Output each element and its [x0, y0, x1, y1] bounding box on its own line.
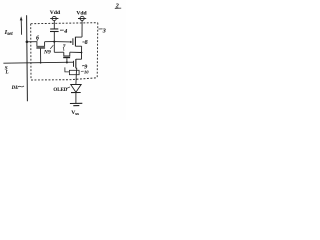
junction T7 drain lead / vertical: [81, 52, 83, 54]
transistor T8 drain lead: [75, 36, 81, 38]
svg-text:7: 7: [63, 44, 66, 50]
svg-text:set: set: [6, 32, 13, 37]
leader DL tilde: [17, 86, 24, 87]
label 8 leader: [82, 41, 84, 43]
svg-text:ss: ss: [75, 111, 79, 116]
svg-text:2: 2: [115, 3, 119, 9]
svg-text:DL: DL: [11, 86, 19, 91]
node N9 wire (node line): [27, 41, 37, 43]
svg-text:3: 3: [102, 28, 106, 34]
label 10 leader: [81, 70, 84, 72]
wire SL scan line rail: [3, 62, 73, 63]
label 7 leader: [63, 48, 65, 51]
dashed box pixel boundary 3: [31, 23, 98, 80]
transistor T7 gate bar: [63, 57, 70, 58]
label 4 leader: [60, 29, 64, 31]
transistor T9 gate bar: [72, 61, 75, 67]
power Vdd right symbol: [80, 16, 84, 20]
wire node to T7 drain: [53, 42, 55, 53]
node A junction dot (DL / node line): [26, 41, 29, 44]
wire pad to OLED anode: [75, 75, 77, 85]
transistor T9 channel: [75, 59, 77, 68]
junction node line / capacitor: [53, 41, 55, 43]
power Vss bar short: [73, 105, 79, 107]
transistor T9 source lead: [75, 68, 78, 70]
gate arrow into T8: [54, 41, 70, 43]
OLED diode triangle: [71, 84, 82, 92]
svg-text:6: 6: [36, 35, 39, 41]
transistor T8 source lead: [75, 45, 81, 47]
svg-text:8: 8: [85, 40, 88, 46]
transistor T6 channel: [37, 42, 45, 47]
OLED cathode bar: [71, 92, 81, 94]
anode contact line: [65, 67, 70, 72]
svg-text:N9: N9: [43, 49, 51, 55]
N9 label leader: [50, 45, 53, 49]
junction SL / T6 gate: [40, 62, 42, 64]
capacitor C4: [53, 32, 55, 42]
label 6 leader: [36, 39, 38, 41]
power Vss bar long: [70, 102, 82, 104]
wire Vdd right to T8 drain: [81, 21, 83, 37]
svg-text:4: 4: [63, 29, 67, 35]
Iset current arrow: [20, 20, 22, 35]
wire DL data line vertical: [26, 15, 29, 101]
figure number underline: [115, 7, 121, 9]
transistor T7 channel: [54, 51, 64, 53]
transistor T7 gate lead: [66, 58, 68, 62]
svg-text:OLED: OLED: [53, 88, 67, 93]
power Vdd left symbol: [52, 16, 56, 20]
wire T8 source to T9 drain: [81, 46, 83, 59]
svg-text:Vdd: Vdd: [50, 10, 61, 16]
svg-text:L: L: [5, 71, 9, 76]
svg-text:Vdd: Vdd: [76, 11, 87, 17]
anode pad 10: [69, 70, 79, 74]
label 9 leader: [82, 65, 84, 67]
label 3 leader: [98, 28, 102, 30]
transistor T6 gate lead: [40, 49, 42, 63]
wire OLED cathode to Vss: [75, 93, 77, 104]
transistor T6 gate bar: [36, 47, 45, 48]
junction SL / T7 gate: [66, 61, 68, 63]
OLED label leader: [66, 87, 70, 89]
transistor T8 gate bar: [72, 38, 73, 45]
svg-text:10: 10: [84, 69, 89, 74]
wire through pad to OLED: [75, 70, 77, 74]
transistor T9 drain lead: [76, 58, 82, 60]
transistor T8 channel: [74, 37, 76, 47]
